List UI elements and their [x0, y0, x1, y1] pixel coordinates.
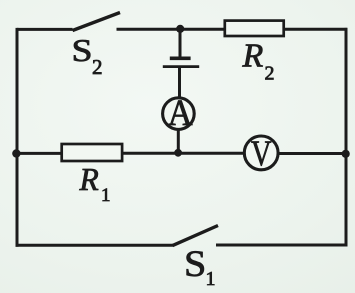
wire middle-center segment [122, 152, 246, 155]
svg-text:1: 1 [101, 185, 111, 206]
wire ammeter to middle node [177, 130, 180, 154]
wire top-right segment [117, 28, 225, 31]
ammeter U-A circle [163, 98, 195, 130]
wire top-left segment [17, 28, 73, 31]
label S1 [184, 244, 206, 284]
label A (ammeter) [168, 92, 193, 133]
svg-text:V: V [251, 133, 271, 173]
wire bottom-right segment [216, 244, 347, 247]
svg-text:A: A [168, 92, 193, 133]
svg-text:1: 1 [206, 268, 216, 290]
switch S1 [173, 226, 219, 246]
node junction left [12, 149, 20, 157]
svg-text:2: 2 [265, 62, 275, 84]
label V (voltmeter) [251, 133, 271, 173]
wire battery branch top [179, 29, 182, 56]
wire after R2 to corner [284, 28, 348, 31]
node junction center (ammeter tap) [174, 149, 182, 157]
svg-text:R: R [79, 162, 99, 197]
node junction right [342, 150, 350, 158]
wire right vertical [345, 28, 348, 247]
resistor R1 body [62, 144, 122, 161]
switch S2 [73, 13, 121, 31]
wire middle-right segment [278, 152, 348, 155]
wire battery to ammeter [178, 68, 181, 99]
voltmeter U-V circle [244, 136, 278, 170]
resistor R2 body [225, 21, 284, 36]
wire middle-left segment [16, 152, 63, 155]
wire left vertical [16, 28, 19, 247]
svg-text:2: 2 [92, 55, 103, 79]
svg-text:S: S [71, 33, 92, 68]
svg-text:S: S [184, 244, 206, 284]
node junction top (battery tap) [176, 25, 184, 33]
wire bottom-left segment [16, 244, 174, 247]
svg-text:R: R [242, 37, 264, 74]
label S2 [71, 33, 92, 68]
battery cell plates [170, 56, 191, 60]
